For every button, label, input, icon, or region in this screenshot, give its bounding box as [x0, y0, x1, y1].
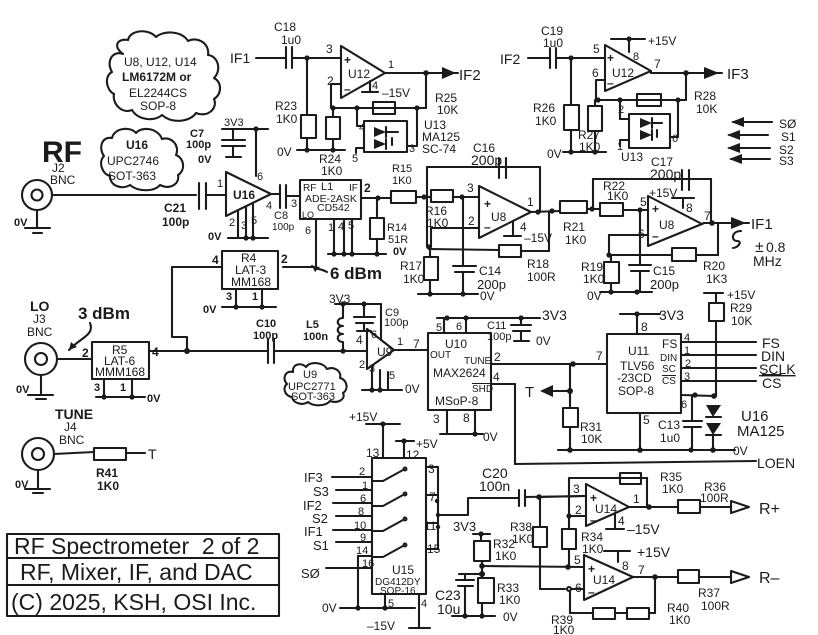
svg-text:1: 1 — [388, 59, 394, 71]
svg-text:R29: R29 — [730, 301, 752, 315]
resistor R37 — [678, 570, 731, 613]
svg-text:U15: U15 — [392, 563, 414, 577]
svg-text:3: 3 — [433, 412, 440, 426]
resistor R34 — [562, 516, 604, 570]
svg-text:0V: 0V — [322, 601, 337, 615]
svg-text:3: 3 — [467, 181, 474, 195]
+15V at U12 second — [611, 34, 676, 63]
svg-text:U12: U12 — [612, 66, 634, 80]
op-amp U12 second — [605, 45, 651, 91]
svg-text:2: 2 — [229, 217, 235, 229]
svg-text:5: 5 — [643, 413, 650, 427]
capacitor C11 — [487, 318, 551, 348]
op-amp U8 first — [479, 186, 534, 238]
wire 3V3 to U16 top — [256, 129, 263, 183]
resistor R23 — [275, 58, 316, 150]
svg-text:100p: 100p — [272, 222, 295, 233]
U11 pin5 — [640, 413, 650, 450]
ground rail U8 second — [587, 289, 652, 303]
svg-text:C15: C15 — [653, 264, 675, 278]
node IF1 input — [230, 50, 286, 66]
ground rail U8 first — [418, 289, 495, 303]
svg-text:0V: 0V — [147, 393, 161, 405]
capacitor C10 — [187, 318, 343, 363]
svg-text:8: 8 — [633, 51, 639, 63]
+5V at U15 — [396, 437, 438, 462]
arrow R- — [731, 570, 780, 587]
svg-text:4: 4 — [212, 253, 219, 267]
svg-text:3V3: 3V3 — [659, 307, 684, 323]
svg-text:FS: FS — [662, 337, 677, 351]
resistor R28 — [637, 89, 717, 116]
svg-text:U9: U9 — [377, 345, 393, 359]
svg-text:0V: 0V — [483, 430, 498, 444]
capacitor C21 — [162, 183, 206, 229]
svg-text:100R: 100R — [527, 270, 556, 284]
svg-text:2: 2 — [281, 252, 288, 266]
arrow IF2 out — [442, 67, 481, 84]
resistor R17 — [400, 249, 438, 294]
note cloud U9 — [285, 363, 347, 405]
svg-text:R21: R21 — [563, 220, 585, 234]
svg-text:5: 5 — [251, 215, 257, 227]
svg-text:9: 9 — [360, 532, 366, 544]
note cloud op-amps — [107, 31, 220, 121]
svg-text:–15V: –15V — [524, 231, 552, 245]
svg-text:+15V: +15V — [637, 544, 671, 560]
svg-text:U8, U12, U14: U8, U12, U14 — [124, 55, 197, 69]
svg-text:+: + — [344, 53, 351, 67]
svg-text:0V: 0V — [733, 444, 748, 458]
svg-text:–15V: –15V — [382, 86, 410, 100]
svg-text:–: – — [590, 513, 597, 527]
svg-text:J4: J4 — [64, 420, 77, 434]
svg-text:1u0: 1u0 — [543, 36, 563, 50]
3V3 rail above C7 — [222, 117, 268, 132]
label LO J3 BNC — [27, 298, 53, 339]
connector J3 BNC — [25, 343, 57, 375]
svg-text:S3: S3 — [779, 154, 794, 168]
resistor R14 — [370, 198, 408, 257]
svg-text:4: 4 — [359, 122, 365, 134]
mixer ground pins 1 4 5 — [328, 219, 407, 258]
svg-text:1K0: 1K0 — [392, 175, 412, 187]
resistor R27 — [578, 100, 602, 154]
ground rail bottom — [558, 444, 748, 458]
svg-text:3V3: 3V3 — [329, 292, 351, 306]
svg-text:RF Spectrometer 2 of 2: RF Spectrometer 2 of 2 — [14, 533, 259, 559]
U14 pin4 -15V — [606, 513, 660, 537]
svg-text:MMM168: MMM168 — [95, 365, 145, 379]
svg-text:200p: 200p — [471, 152, 502, 168]
svg-text:R28: R28 — [694, 89, 716, 103]
svg-text:3: 3 — [241, 220, 247, 232]
svg-text:8: 8 — [358, 506, 364, 518]
op-amp U14 upper — [573, 482, 640, 527]
svg-text:RF, Mixer, IF, and DAC: RF, Mixer, IF, and DAC — [20, 559, 253, 585]
DAC U11 — [607, 334, 681, 413]
svg-text:R26: R26 — [533, 101, 555, 115]
wire U9 to U10 — [394, 337, 428, 351]
U8 inverting wire — [426, 214, 479, 250]
svg-text:200p: 200p — [650, 166, 681, 182]
svg-text:0V: 0V — [16, 384, 30, 396]
svg-text:IF2: IF2 — [459, 67, 481, 84]
ground rail R23 R24 — [277, 145, 345, 159]
svg-text:T: T — [525, 384, 534, 401]
svg-text:16: 16 — [362, 558, 374, 570]
svg-text:R17: R17 — [400, 259, 422, 273]
svg-text:SC: SC — [662, 364, 676, 375]
feedback wire R28 row — [595, 97, 686, 102]
+15V at U15 — [349, 410, 400, 460]
svg-text:8: 8 — [641, 320, 648, 334]
svg-text:R37: R37 — [698, 586, 720, 600]
inductor L5 — [303, 304, 346, 354]
capacitor C18 — [274, 20, 301, 68]
U15 bottom pins — [322, 594, 430, 633]
wire output down to feedback — [685, 73, 687, 100]
svg-text:R20: R20 — [703, 259, 725, 273]
svg-text:CS: CS — [662, 376, 676, 387]
connector J4 BNC — [22, 438, 54, 470]
node IF2 input — [500, 51, 550, 67]
svg-text:4: 4 — [372, 80, 378, 92]
svg-text:3 dBm: 3 dBm — [78, 304, 130, 323]
wire R5 to node — [149, 350, 187, 352]
svg-text:U13: U13 — [621, 150, 643, 164]
svg-text:0V: 0V — [587, 289, 602, 303]
resistor R36 — [678, 480, 731, 513]
svg-text:R23: R23 — [275, 99, 297, 113]
svg-text:MAX2624: MAX2624 — [433, 366, 486, 380]
svg-text:0V: 0V — [405, 382, 420, 396]
svg-text:0V: 0V — [503, 610, 518, 624]
svg-text:100p: 100p — [384, 317, 408, 329]
svg-text:4: 4 — [338, 221, 344, 233]
svg-text:4: 4 — [266, 200, 272, 212]
svg-text:0V: 0V — [480, 289, 495, 303]
svg-text:10: 10 — [354, 520, 366, 532]
svg-text:3: 3 — [684, 371, 690, 383]
capacitor C15 — [629, 210, 679, 292]
svg-text:3: 3 — [369, 363, 375, 375]
U15 output bus — [424, 462, 519, 556]
svg-text:12: 12 — [406, 448, 420, 462]
R4 pin4 wire down to LO line — [172, 267, 222, 354]
capacitor C17 loop — [593, 155, 711, 223]
svg-text:0V: 0V — [393, 246, 407, 258]
diodes U16 MA125 — [706, 405, 785, 450]
U11 top pin 3V3 — [620, 307, 684, 334]
resistor R25 — [373, 91, 458, 117]
resistor R24 — [319, 108, 343, 178]
wire U12 output — [385, 59, 442, 76]
svg-text:SØ: SØ — [779, 117, 796, 131]
svg-text:R14: R14 — [387, 222, 407, 234]
svg-text:SOP-8: SOP-8 — [618, 384, 654, 398]
svg-text:0V: 0V — [536, 334, 551, 348]
svg-text:7: 7 — [704, 209, 711, 223]
wire U12 second output — [651, 57, 704, 76]
resistor R26 — [533, 58, 579, 152]
svg-text:U8: U8 — [659, 218, 675, 232]
svg-text:3V3: 3V3 — [542, 307, 567, 323]
svg-text:L1: L1 — [321, 181, 333, 193]
svg-text:0V: 0V — [277, 145, 292, 159]
svg-text:0V: 0V — [203, 304, 217, 316]
svg-text:IF1: IF1 — [304, 524, 323, 539]
svg-text:BNC: BNC — [50, 173, 76, 187]
resistor R29 — [704, 288, 755, 399]
svg-text:C21: C21 — [164, 201, 186, 215]
mixer IF output wire — [361, 195, 391, 200]
svg-text:100R: 100R — [701, 599, 730, 613]
svg-text:U16: U16 — [126, 138, 148, 152]
svg-text:1K0: 1K0 — [582, 542, 604, 556]
wire C19 to U12 second — [556, 42, 605, 61]
svg-text:BNC: BNC — [59, 433, 85, 447]
ground rail divider — [452, 610, 518, 624]
svg-text:SØ: SØ — [301, 566, 320, 581]
svg-text:C10: C10 — [256, 318, 276, 330]
svg-text:6: 6 — [456, 321, 462, 333]
svg-text:R41: R41 — [96, 466, 118, 480]
svg-text:10K: 10K — [731, 314, 752, 328]
svg-text:1u0: 1u0 — [660, 431, 680, 445]
svg-text:+15V: +15V — [648, 34, 676, 48]
svg-text:200p: 200p — [650, 277, 679, 292]
amp U9 — [343, 304, 403, 369]
svg-text:U9: U9 — [303, 369, 317, 381]
svg-text:100n: 100n — [303, 331, 328, 343]
svg-text:7: 7 — [413, 337, 420, 351]
svg-text:6: 6 — [681, 399, 687, 411]
U12 inverting input wire — [327, 74, 341, 108]
U15 input wires — [301, 466, 374, 608]
svg-text:11: 11 — [424, 519, 437, 533]
svg-text:1: 1 — [252, 291, 258, 303]
svg-text:10u: 10u — [437, 601, 460, 617]
svg-text:0V: 0V — [15, 479, 29, 491]
wire J2 to C21 — [52, 194, 196, 196]
arrow R+ — [731, 501, 780, 518]
label TUNE J4 BNC — [55, 406, 93, 447]
svg-text:C13: C13 — [658, 418, 680, 432]
resistor R19 — [581, 255, 619, 292]
svg-text:1K3: 1K3 — [706, 272, 728, 286]
svg-text:1K0: 1K0 — [499, 593, 521, 607]
3V3 rail at L5 — [329, 292, 381, 307]
capacitor C13 — [658, 395, 702, 450]
ground rail R26 R27 — [547, 147, 606, 161]
wire J3 to R5 — [57, 346, 92, 360]
svg-text:1K0: 1K0 — [607, 189, 629, 203]
svg-text:IF1: IF1 — [230, 50, 250, 66]
svg-text:C18: C18 — [274, 20, 296, 34]
resistor R20 feedback — [609, 224, 728, 286]
limiter U13 first — [352, 108, 417, 165]
svg-text:LOEN: LOEN — [757, 455, 795, 471]
svg-text:IF3: IF3 — [304, 470, 323, 485]
svg-text:MSoP-8: MSoP-8 — [435, 394, 479, 408]
svg-text:10K: 10K — [437, 103, 458, 117]
U11 pin6 wire — [681, 392, 714, 411]
svg-text:8: 8 — [463, 411, 470, 425]
svg-text:1: 1 — [527, 195, 534, 209]
svg-text:3: 3 — [226, 291, 232, 303]
svg-text:T: T — [148, 446, 157, 462]
feedback wire R25 row — [330, 105, 426, 110]
svg-text:UPC2746: UPC2746 — [107, 154, 159, 168]
3 dBm annotation — [69, 304, 130, 350]
svg-text:1K0: 1K0 — [276, 112, 298, 126]
svg-text:2: 2 — [685, 358, 691, 370]
svg-text:2: 2 — [359, 466, 365, 478]
arrow IF3 out — [704, 66, 749, 83]
connector J2 BNC — [22, 180, 52, 210]
label U13 MA125 — [422, 118, 460, 156]
svg-text:1K0: 1K0 — [535, 114, 557, 128]
svg-text:5: 5 — [593, 42, 600, 56]
resistor R22 — [600, 179, 648, 216]
wire divider to U14 lower — [482, 566, 584, 567]
svg-text:3: 3 — [291, 198, 297, 210]
svg-text:S1: S1 — [313, 538, 329, 553]
svg-text:1K0: 1K0 — [565, 233, 587, 247]
svg-text:6: 6 — [360, 493, 366, 505]
resistor R41 — [54, 448, 145, 493]
wire U14 lower output — [633, 574, 678, 580]
svg-text:–: – — [484, 220, 491, 234]
svg-text:100p: 100p — [253, 330, 278, 342]
resistor R38 — [510, 497, 565, 589]
svg-text:1K0: 1K0 — [495, 549, 517, 563]
resistor R35 feedback — [566, 470, 683, 519]
svg-text:3: 3 — [428, 462, 435, 476]
capacitor C16 loop — [427, 141, 540, 247]
svg-text:SOP-8: SOP-8 — [140, 99, 176, 113]
arrows S0-S3 — [727, 117, 796, 168]
R4 ground pins — [203, 289, 276, 316]
svg-text:5: 5 — [436, 322, 442, 334]
svg-text:C8: C8 — [274, 210, 288, 222]
svg-text:+: + — [607, 51, 614, 65]
svg-text:3: 3 — [326, 42, 333, 56]
svg-text:–15V: –15V — [367, 619, 395, 633]
svg-text:6: 6 — [371, 329, 377, 341]
U10 bottom pins — [433, 410, 498, 444]
svg-text:EL2244CS: EL2244CS — [129, 86, 187, 100]
resistor R21 — [560, 201, 600, 247]
svg-text:3: 3 — [94, 382, 100, 394]
op-amp U14 lower — [574, 553, 645, 600]
svg-text:4: 4 — [421, 598, 427, 610]
svg-text:–: – — [344, 82, 351, 96]
svg-text:7: 7 — [429, 490, 436, 504]
svg-text:C14: C14 — [479, 264, 501, 278]
svg-text:1: 1 — [397, 336, 403, 348]
arrow IF1 out — [731, 216, 773, 233]
ground at J4 — [15, 470, 50, 493]
svg-text:CD542: CD542 — [317, 202, 350, 214]
svg-text:100p: 100p — [186, 139, 211, 151]
wire U8 output — [531, 208, 560, 214]
svg-text:4: 4 — [618, 514, 625, 528]
LO pin6 wire to R4 — [283, 219, 316, 267]
svg-text:R15: R15 — [392, 163, 412, 175]
note cloud U16 — [101, 129, 183, 190]
U8 second inverting wire — [606, 227, 648, 258]
svg-text:4: 4 — [684, 332, 690, 344]
svg-text:+15V: +15V — [349, 410, 377, 424]
analog switch U15 — [372, 458, 426, 597]
resistors R39 R40 feedback — [551, 577, 691, 635]
svg-text:U10: U10 — [445, 337, 467, 351]
svg-text:R+: R+ — [759, 501, 780, 518]
limiter U13 second — [617, 100, 678, 153]
svg-text:SOT-363: SOT-363 — [291, 391, 335, 403]
svg-text:1: 1 — [120, 382, 126, 394]
svg-text:1K0: 1K0 — [583, 272, 605, 286]
capacitor C7 — [186, 128, 245, 166]
resistor R16 — [421, 181, 479, 230]
op-amp U12 first — [341, 46, 385, 98]
svg-text:+15V: +15V — [727, 288, 755, 302]
wire U14 output — [629, 504, 678, 510]
divider R32 R33 — [453, 519, 521, 616]
capacitor C19 — [541, 24, 563, 68]
svg-text:6 dBm: 6 dBm — [330, 264, 382, 283]
svg-text:1K0: 1K0 — [321, 164, 343, 178]
svg-text:IF3: IF3 — [727, 66, 749, 83]
svg-text:1K0: 1K0 — [97, 479, 119, 493]
svg-text:IF2: IF2 — [500, 51, 520, 67]
label RF — [42, 136, 82, 187]
svg-text:0V: 0V — [547, 147, 562, 161]
svg-text:LM6172M or: LM6172M or — [122, 70, 192, 84]
6 dBm annotation — [312, 264, 382, 283]
mixer U/L1 ADE-2ASK — [300, 180, 371, 220]
svg-text:10K: 10K — [581, 432, 602, 446]
svg-text:1K0: 1K0 — [662, 482, 684, 496]
svg-text:SC-74: SC-74 — [422, 142, 456, 156]
svg-text:SOT-363: SOT-363 — [108, 169, 156, 183]
svg-text:2: 2 — [327, 74, 334, 88]
svg-text:U12: U12 — [348, 67, 370, 81]
svg-text:2: 2 — [618, 104, 624, 116]
svg-text:1K0: 1K0 — [553, 623, 575, 635]
svg-text:–: – — [607, 76, 614, 90]
U8 pin4 -15V — [504, 220, 552, 245]
arrow T — [525, 364, 573, 408]
svg-text:0V: 0V — [198, 154, 212, 166]
svg-text:L5: L5 — [306, 319, 319, 331]
SHD wire to LOEN — [491, 370, 795, 471]
resistor R31 — [563, 408, 602, 450]
svg-text:100p: 100p — [487, 331, 511, 343]
svg-text:–: – — [652, 229, 659, 243]
svg-text:CS: CS — [762, 375, 781, 391]
annotation 0.8 MHz — [733, 231, 786, 269]
title block — [7, 533, 279, 616]
svg-text:15: 15 — [427, 542, 441, 556]
svg-text:100R: 100R — [700, 491, 729, 505]
svg-text:2: 2 — [359, 359, 365, 371]
U9 ground pins — [359, 359, 420, 396]
svg-text:1: 1 — [684, 345, 690, 357]
svg-text:5: 5 — [352, 153, 358, 165]
